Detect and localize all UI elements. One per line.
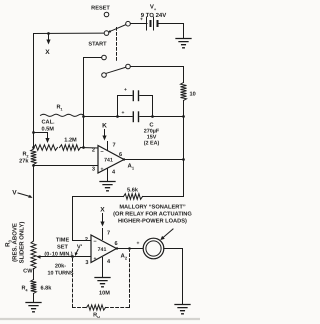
resistor RH 10M (hysteresis) (87, 291, 111, 320)
svg-text:7: 7 (113, 143, 116, 149)
dashed feedback path left side (72, 259, 74, 308)
junction: CAL wiper takeoff (32, 131, 35, 134)
wire: S1b pole to right rail (131, 67, 184, 83)
svg-text:6: 6 (114, 241, 117, 247)
svg-text:(RES. ABOVE: (RES. ABOVE (12, 223, 19, 262)
svg-text:+: + (124, 87, 127, 93)
svg-text:10 TURNS: 10 TURNS (47, 271, 73, 277)
pin 7 stub A1 with node K arrow (102, 123, 116, 151)
svg-text:7: 7 (107, 231, 110, 237)
resistor: CAL pot body on input line (34, 145, 58, 151)
svg-text:+: + (101, 167, 104, 173)
pin 3 label A2 (85, 260, 88, 266)
label MALLORY SONALERT (113, 205, 192, 225)
wire: 10 ohm to capacitor line (183, 101, 185, 117)
capacitor C upper 270uF (124, 87, 138, 101)
svg-text:6.8k: 6.8k (41, 285, 53, 292)
scan artifact line at bottom (0, 318, 202, 320)
resistor R1 0.5M CAL (wavy body) (41, 105, 84, 133)
op-amp A1 741 (triangle) (98, 146, 124, 174)
junction: left rail at pin 3 line (32, 164, 35, 167)
svg-text:MALLORY “SONALERT”: MALLORY “SONALERT” (119, 205, 186, 211)
resistor R4 6.8k (21, 280, 52, 294)
switch S1b upper contact (to capacitor line) (102, 55, 107, 60)
svg-text:V: V (12, 190, 17, 197)
node V' (arrow to wiper) (75, 245, 83, 257)
label CW (23, 269, 33, 275)
wire: R4 to bottom-left ground (33, 294, 35, 303)
svg-text:0.5M: 0.5M (42, 127, 55, 133)
svg-text:6: 6 (119, 152, 122, 158)
ground at A1 pin 4 (100, 182, 115, 191)
wire: 1.2M to op-amp pin 2 (81, 147, 99, 150)
dashed feedback path bottom right segment (106, 307, 130, 309)
svg-text:741: 741 (104, 158, 113, 164)
junction: A1 output at right rail (123, 158, 185, 161)
switch S1a pole and arm (109, 21, 131, 32)
wire: cap line from junction to lower capacitor (84, 116, 133, 118)
pin 2 label A1 (92, 148, 95, 154)
pin 7 stub A2 with node X arrow (100, 207, 110, 240)
svg-text:3: 3 (92, 167, 95, 173)
pin 6 output A2 (node A2) (114, 241, 142, 261)
junction: cap line at right rail (182, 115, 185, 118)
wire: S1b upper contact left and down to node K line (84, 58, 102, 116)
svg-text:TIME: TIME (56, 238, 70, 244)
dashed feedback path bottom left segment (73, 307, 87, 309)
dashed feedback path right side to A2 output (116, 247, 131, 307)
annotation arrow to sonalert (160, 229, 173, 240)
svg-text:5.6k: 5.6k (127, 187, 139, 194)
battery B1 9 TO 24V (140, 4, 166, 31)
op-amp A2 741 (triangle) (91, 235, 117, 263)
pin 6 output A1 (node A1) (119, 152, 184, 170)
wire: sonalert to bottom-right ground (164, 249, 183, 304)
ground bottom-left (26, 303, 41, 312)
resistor 5.6k (73, 187, 184, 200)
resistor R2 27k (19, 149, 36, 165)
wire: R1 right terminal down to input line (83, 117, 85, 148)
junction: R1 bottom tie to input line (82, 146, 85, 149)
wire: right rail cap line to 5.6k line (183, 117, 185, 197)
svg-text:3: 3 (85, 260, 88, 266)
svg-text:10M: 10M (99, 291, 110, 297)
svg-text:RESET: RESET (91, 6, 110, 12)
junction: upper cap branch right (node C) (151, 115, 154, 118)
svg-text:START: START (88, 42, 107, 48)
sonalert SP1 (buzzer) (143, 238, 164, 259)
svg-text:27k: 27k (19, 158, 29, 165)
svg-text:2: 2 (85, 237, 88, 243)
svg-text:(OR RELAY FOR ACTUATING: (OR RELAY FOR ACTUATING (113, 211, 192, 218)
svg-text:CAL.: CAL. (42, 120, 55, 126)
svg-text:+: + (94, 256, 97, 262)
dashed gang link between switch poles (116, 28, 118, 63)
resistor 10 ohm (181, 83, 196, 101)
junction: left rail at 1.2M line (32, 146, 35, 149)
pin 4 stub A1 (108, 169, 117, 181)
svg-text:CW: CW (23, 269, 33, 275)
node V (arrow to left rail) (12, 190, 32, 198)
junction: upper cap branch left (116, 115, 119, 118)
label: C 270uF 15V (2 EA) (144, 122, 160, 147)
wire: left rail mid section (33, 165, 35, 242)
pin 3 label A1 (92, 167, 95, 173)
junction: dashed path at wiper line (71, 255, 74, 258)
wire: top horizontal from left rail to START contact (34, 32, 104, 34)
R3 wiper to A2 pin 3 (36, 255, 91, 259)
svg-text:+: + (122, 110, 125, 116)
wire: upper capacitor branch (118, 96, 153, 117)
switch S1b lower contact (102, 73, 107, 78)
capacitor C lower 270uF (122, 110, 139, 122)
svg-text:10: 10 (190, 92, 196, 98)
svg-text:HIGHER-POWER LOADS): HIGHER-POWER LOADS) (118, 218, 187, 225)
label 20k 10 TURNS (47, 263, 73, 277)
ground at A2 pin 4 (95, 278, 110, 287)
svg-text:(2 EA): (2 EA) (144, 141, 160, 147)
label R3 (RES. ABOVE SLIDER ONLY) rotated (5, 222, 26, 264)
label TIME SET (0-10 MIN.) (44, 238, 72, 258)
wire: switch S1a pole to battery + (131, 23, 147, 25)
junction: R1 right end / S1b wire / cap line (82, 115, 85, 118)
svg-text:741: 741 (98, 247, 107, 253)
wire: 5.6k line down to A2 pin 2 (73, 197, 92, 241)
svg-text:X: X (100, 207, 105, 214)
svg-text:X: X (45, 49, 50, 56)
pin 4 stub A2 (103, 258, 112, 277)
resistor 1.2M (60, 138, 81, 151)
svg-text:SLIDER ONLY): SLIDER ONLY) (19, 222, 26, 264)
pin 2 label A2 (85, 237, 88, 243)
wire: battery - to top-right ground (159, 24, 184, 38)
wire: left rail to op-amp A1 pin 3 (34, 165, 99, 167)
svg-text:9 TO 24V: 9 TO 24V (141, 12, 167, 19)
switch S1a START contact (88, 31, 108, 48)
wire: lower capacitor to right rail (140, 116, 184, 118)
node X (tap on top wire) (45, 32, 50, 56)
svg-text:SET: SET (57, 245, 68, 251)
svg-text:1.2M: 1.2M (64, 138, 77, 144)
wire: left rail top section (33, 34, 35, 150)
CAL pot wiper arm (34, 133, 50, 144)
svg-text:+: + (137, 241, 140, 247)
wire: left rail pot to R4 (33, 269, 35, 280)
ground bottom-right (175, 305, 190, 314)
svg-text:2: 2 (92, 148, 95, 154)
svg-text:20k-: 20k- (55, 263, 66, 270)
potentiometer R3 20k 10 TURNS (body) (31, 241, 36, 269)
switch S1b pole and arm (106, 64, 130, 73)
ground at battery (176, 39, 191, 48)
switch S1a RESET contact (91, 6, 110, 17)
svg-text:K: K (102, 123, 107, 130)
